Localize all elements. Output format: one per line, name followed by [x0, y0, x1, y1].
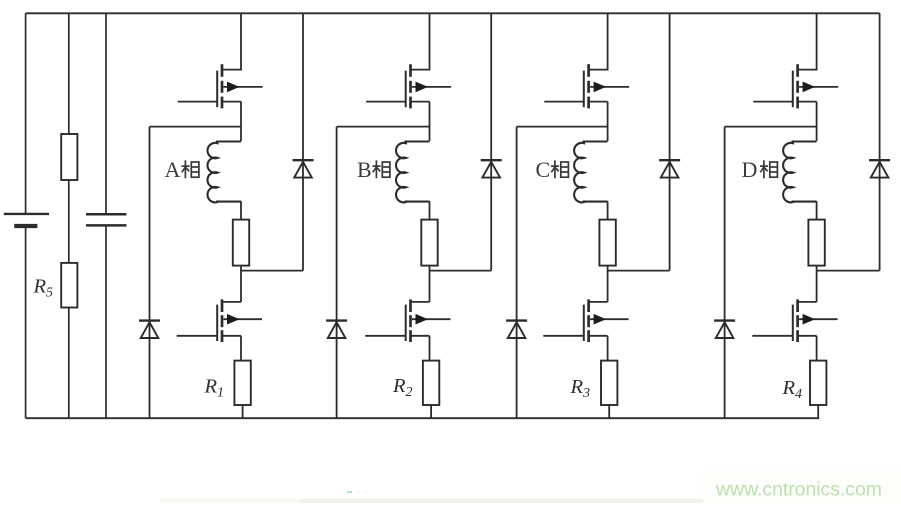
svg-text:B: B [357, 157, 372, 182]
wire B-phase sense resistor to bottom rail [430, 405, 432, 418]
wire A-phase junction to freewheel diode column [241, 270, 303, 272]
wire battery column upper [25, 13, 27, 213]
wire D-phase left diode column [724, 127, 726, 419]
wire divider column top [68, 13, 70, 134]
wire D-phase freewheel diode column [879, 13, 881, 270]
wire C-phase low-side drain stub [589, 301, 608, 303]
transistor Q3 (B-phase high-side MOSFET) [366, 64, 451, 108]
wire divider column middle [68, 180, 70, 263]
wire D-phase low-side drain stub [798, 301, 817, 303]
label B相 [357, 157, 390, 182]
wire C-phase winding to resistor [607, 201, 609, 219]
resistor (upper divider, unlabeled) [61, 134, 77, 180]
wire D-phase source to sense resistor [816, 336, 818, 361]
faint caption remnant [347, 491, 352, 493]
resistor (A-phase, unlabeled) [233, 220, 249, 266]
scan shadow along bottom edge [160, 499, 820, 504]
wire D-phase drain drop from top rail [798, 13, 817, 69]
wire bottom return rail [26, 417, 820, 419]
transistor Q8 (D-phase low-side MOSFET) [752, 299, 837, 342]
resistor R4 [810, 361, 826, 405]
wire B-phase winding to resistor [429, 201, 431, 219]
wire A-phase winding-top to left diode column [150, 126, 242, 128]
label A相 [165, 157, 199, 182]
wire A-phase resistor to low-side drain [240, 266, 242, 302]
diode D7 (D-phase, left) [714, 321, 735, 338]
wire C-phase source to winding [607, 102, 609, 141]
svg-text:D: D [742, 157, 758, 182]
inductor B-phase winding [396, 142, 429, 203]
wire B-phase winding-top to left diode column [337, 126, 430, 128]
resistor R1 [234, 361, 250, 405]
resistor R5 [61, 263, 77, 308]
wire capacitor column bottom [105, 225, 107, 418]
wire C-phase drain drop from top rail [589, 13, 608, 69]
wire top supply rail [26, 12, 880, 14]
label D相 [742, 157, 778, 182]
wire B-phase resistor to low-side drain [429, 266, 431, 302]
diode D4 (B-phase freewheel, right) [481, 160, 502, 177]
wire A-phase low-side drain stub [222, 301, 241, 303]
watermark band [703, 471, 901, 503]
transistor Q6 (C-phase low-side MOSFET) [543, 299, 628, 342]
wire A-phase sense resistor to bottom rail [242, 405, 244, 418]
wire D-phase winding to resistor [816, 201, 818, 219]
wire C-phase sense resistor to bottom rail [608, 405, 610, 418]
inductor D-phase winding [783, 142, 816, 203]
battery [4, 214, 49, 226]
wire divider column bottom [68, 308, 70, 419]
svg-text:A: A [165, 157, 181, 182]
svg-text:www.cntronics.com: www.cntronics.com [715, 479, 882, 501]
diode D8 (D-phase freewheel, right) [869, 160, 890, 177]
transistor Q5 (C-phase high-side MOSFET) [544, 64, 629, 108]
diode D3 (B-phase, left) [326, 321, 347, 338]
resistor (D-phase, unlabeled) [808, 220, 824, 266]
wire C-phase left diode column [516, 127, 518, 419]
transistor Q4 (B-phase low-side MOSFET) [365, 299, 450, 342]
wire D-phase junction to freewheel diode column [817, 270, 880, 272]
wire B-phase freewheel diode column [490, 13, 492, 270]
resistor R3 [601, 361, 617, 405]
wire B-phase source to winding [429, 102, 431, 141]
wire C-phase resistor to low-side drain [607, 266, 609, 302]
wire C-phase winding-top to left diode column [517, 126, 608, 128]
wire C-phase freewheel diode column [669, 13, 671, 270]
resistor (C-phase, unlabeled) [599, 220, 615, 266]
wire capacitor column top [105, 13, 107, 214]
transistor Q1 (A-phase high-side MOSFET) [178, 64, 263, 108]
wire A-phase drain drop from top rail [222, 13, 241, 69]
diode D5 (C-phase, left) [506, 321, 527, 338]
wire B-phase source to sense resistor [429, 336, 431, 361]
wire D-phase source to winding [816, 102, 818, 141]
resistor (B-phase, unlabeled) [421, 220, 437, 266]
wire B-phase low-side drain stub [411, 301, 430, 303]
inductor A-phase winding [208, 142, 241, 203]
wire B-phase drain drop from top rail [411, 13, 430, 69]
wire C-phase source to sense resistor [607, 336, 609, 361]
wire A-phase left diode column [149, 127, 151, 419]
diode D1 (A-phase, left) [139, 321, 160, 338]
capacitor C1 [86, 214, 127, 225]
wire D-phase winding-top to left diode column [725, 126, 817, 128]
wire battery column lower [25, 226, 27, 418]
transistor Q2 (A-phase low-side MOSFET) [177, 299, 262, 342]
svg-text:C: C [536, 157, 551, 182]
wire B-phase left diode column [336, 127, 338, 419]
diode D6 (C-phase freewheel, right) [659, 160, 680, 177]
wire A-phase freewheel diode column [302, 13, 304, 270]
transistor Q7 (D-phase high-side MOSFET) [753, 64, 838, 108]
wire D-phase sense resistor to bottom rail [817, 405, 819, 418]
diode D2 (A-phase freewheel, right) [293, 160, 314, 177]
wire A-phase source to sense resistor [240, 336, 242, 361]
label C相 [536, 157, 569, 182]
wire C-phase junction to freewheel diode column [608, 270, 670, 272]
wire D-phase resistor to low-side drain [816, 266, 818, 302]
inductor C-phase winding [574, 142, 607, 203]
wire B-phase junction to freewheel diode column [430, 270, 492, 272]
wire A-phase winding to resistor [240, 201, 242, 219]
wire A-phase source to winding [240, 102, 242, 141]
resistor R2 [423, 361, 439, 405]
